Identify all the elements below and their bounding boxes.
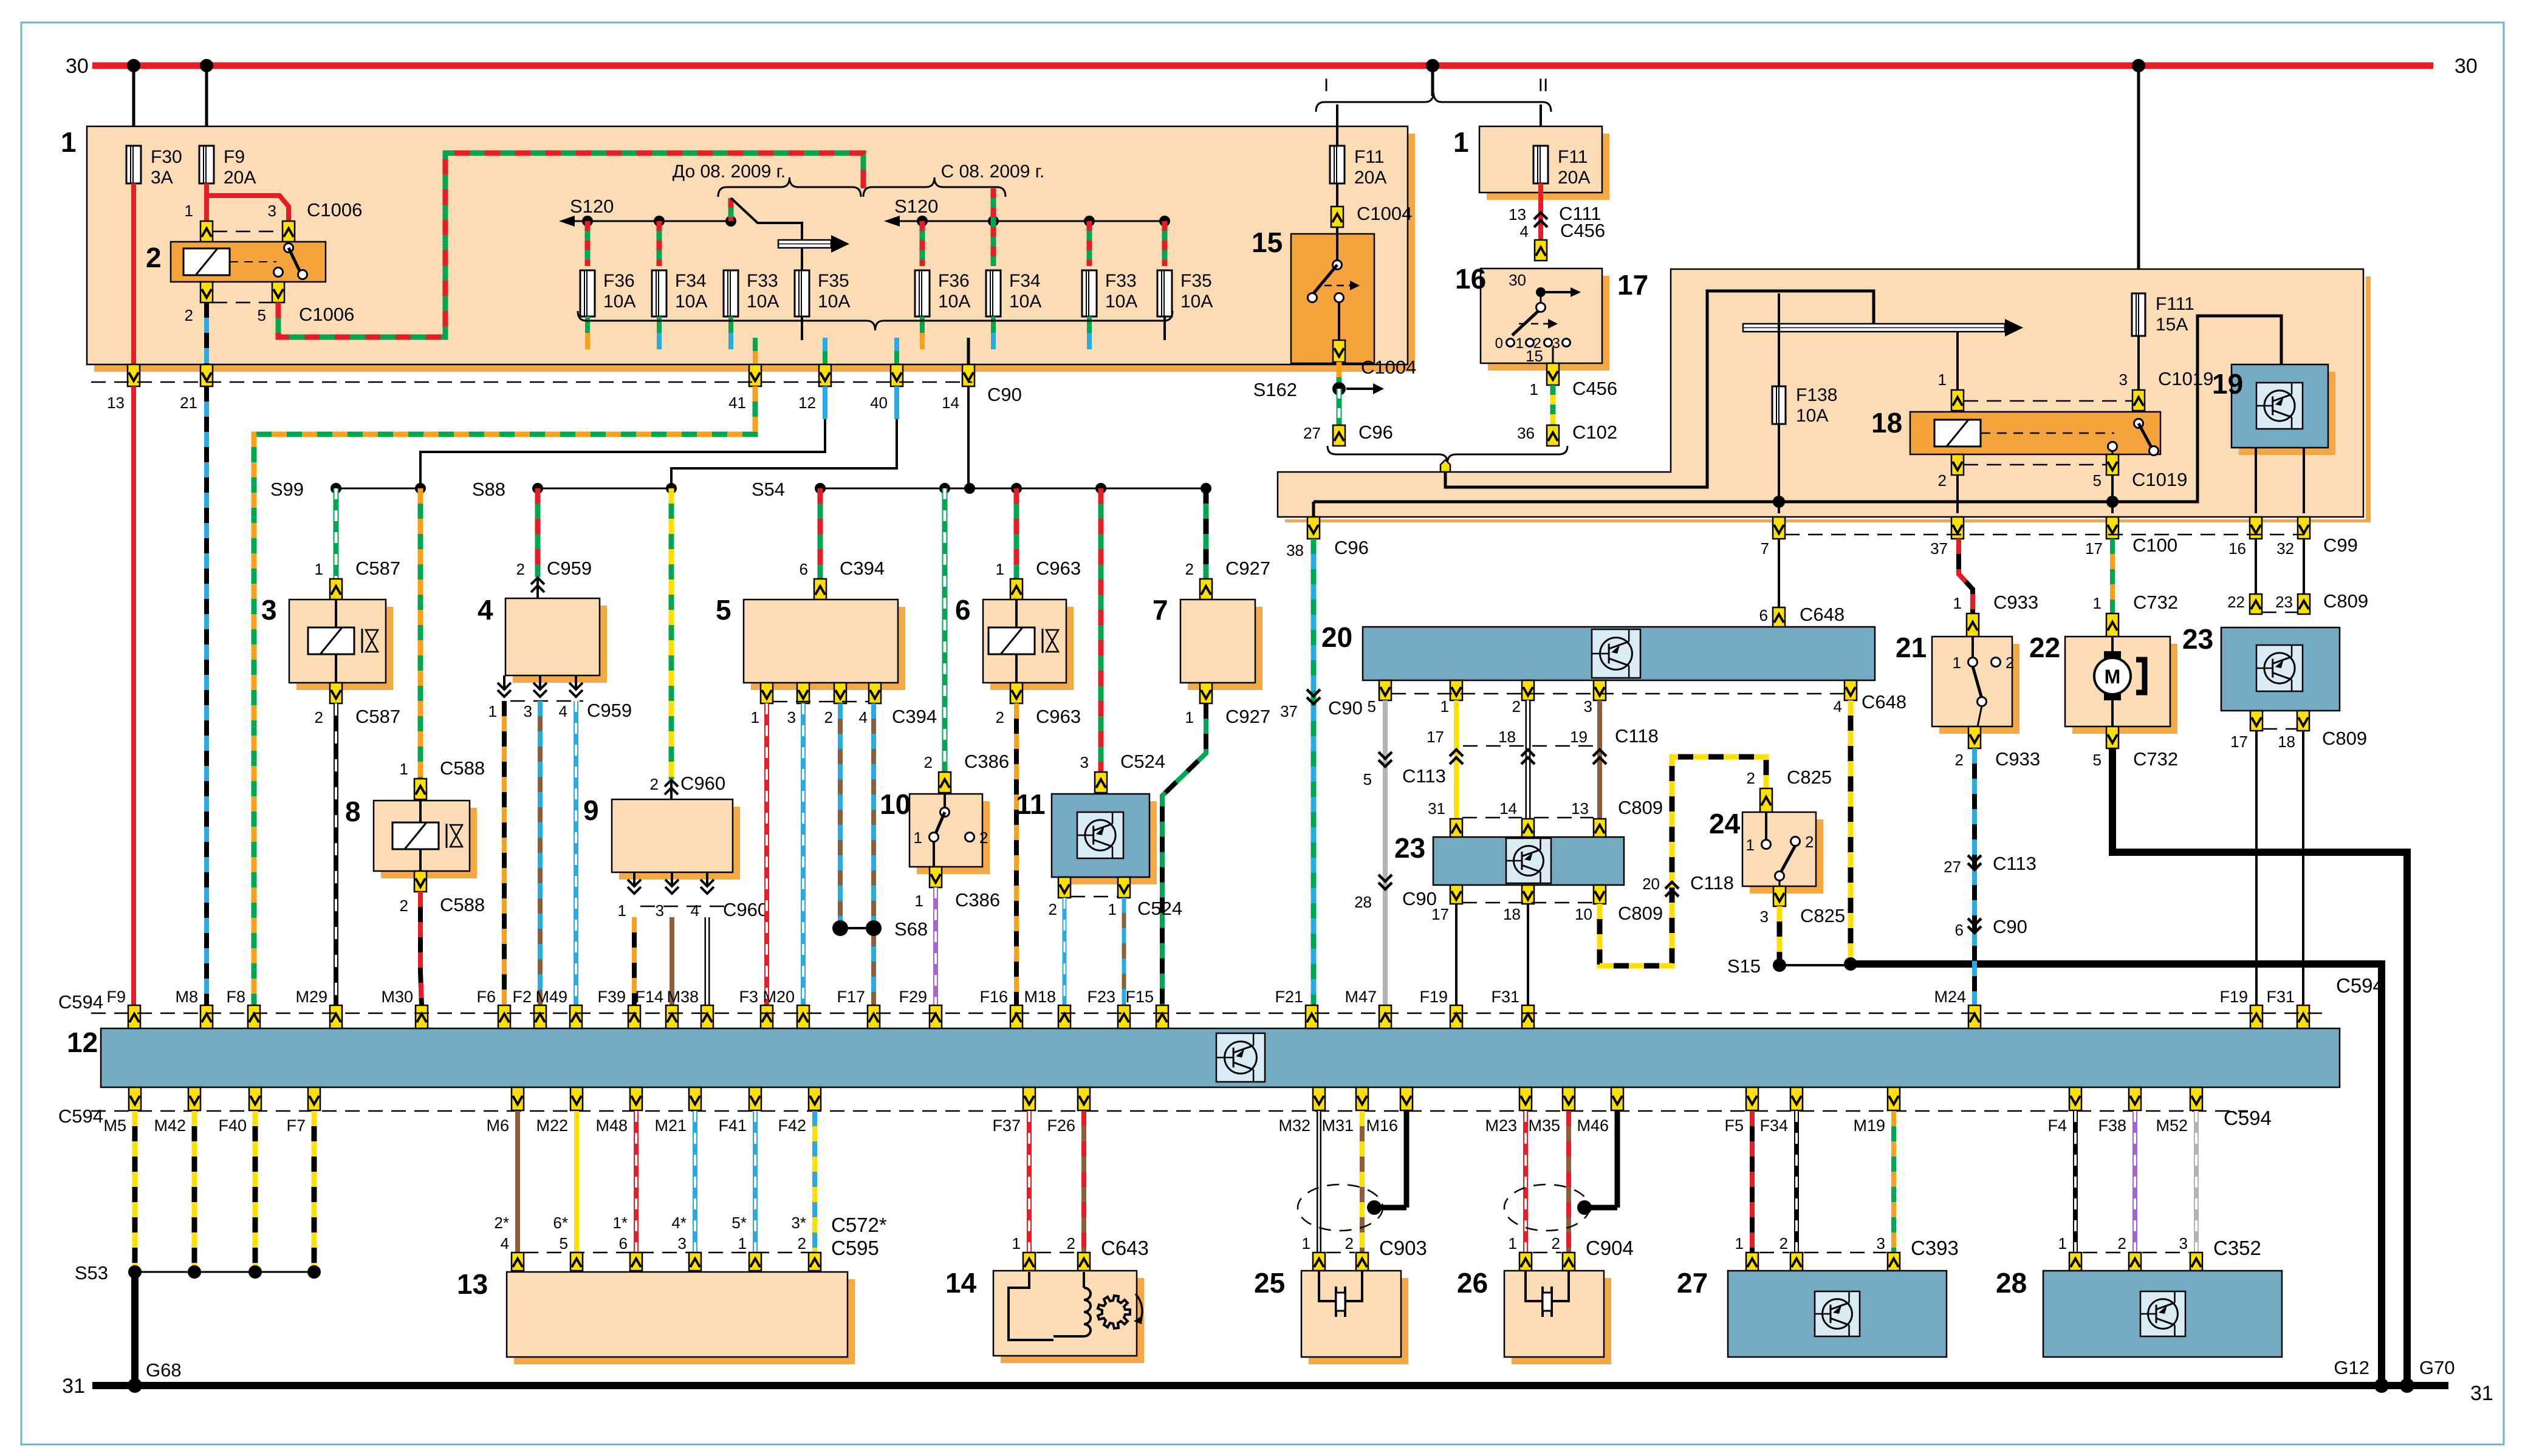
ground wire S53 to G68 xyxy=(131,1272,139,1386)
svg-text:1: 1 xyxy=(185,202,193,220)
wire C394-2 to S68 (brown/blue) xyxy=(838,703,843,928)
svg-text:37: 37 xyxy=(1930,539,1948,558)
block12 icon xyxy=(1216,1033,1265,1082)
svg-text:5: 5 xyxy=(1363,770,1372,788)
connector C96 pin38 xyxy=(1286,517,1369,559)
junction on bus 30 at F9 xyxy=(200,59,213,72)
wire M35 to block26 (brown/red) xyxy=(1566,1111,1571,1253)
svg-text:S68: S68 xyxy=(894,918,928,940)
wire pin40 stub (blue) xyxy=(894,386,899,419)
wire C648-4 to S15 (yellow/black) xyxy=(1848,700,1854,963)
wire C648-1 to C118-17 (yellow) xyxy=(1454,700,1459,819)
svg-text:F4: F4 xyxy=(2047,1116,2067,1135)
svg-text:F31: F31 xyxy=(1491,988,1519,1006)
svg-text:C809: C809 xyxy=(2323,590,2368,612)
svg-text:M8: M8 xyxy=(175,988,198,1006)
stub below F36 B xyxy=(920,316,925,349)
connector C809 pin18 right xyxy=(2297,711,2309,731)
svg-text:9: 9 xyxy=(583,795,599,826)
junction pin5/net-A xyxy=(2106,496,2119,508)
dashed line C903 xyxy=(1326,1252,1355,1254)
svg-text:31: 31 xyxy=(1428,799,1445,818)
svg-text:1: 1 xyxy=(1953,594,1962,612)
svg-text:C113: C113 xyxy=(1993,853,2036,874)
dashed line C118 xyxy=(1463,745,1593,747)
block 19 module xyxy=(2212,364,2335,455)
svg-text:C386: C386 xyxy=(964,751,1009,772)
wire harness to relay 18 pin 1 xyxy=(1956,332,1959,390)
svg-text:1: 1 xyxy=(751,708,759,726)
wire pentagon feed inside bar xyxy=(1445,291,1874,487)
block 25 connector row xyxy=(1313,1253,1368,1271)
block15 switch symbol xyxy=(1308,227,1360,340)
block 12 bottom pin labels xyxy=(103,1116,2188,1135)
junction S120 B F36 xyxy=(917,216,928,227)
relay K2 connector pin2 C1006 xyxy=(185,282,213,324)
wire C394-3 to M20 (blue/white) xyxy=(801,703,806,1005)
block 10 switch xyxy=(880,788,990,874)
svg-text:1: 1 xyxy=(1746,836,1755,854)
fuse F35 10A (group A) xyxy=(795,270,850,316)
switch lever group A xyxy=(731,198,802,240)
svg-text:F35: F35 xyxy=(818,271,849,291)
svg-text:1: 1 xyxy=(738,1234,747,1253)
wire right-23 pin17 to F19 (black) xyxy=(2255,731,2258,1005)
block 15 switch xyxy=(1252,227,1374,363)
wire M32 to block25 (double thin) xyxy=(1317,1111,1321,1253)
junction S120 A F34 xyxy=(654,216,665,227)
splice C118 pin20 xyxy=(1642,872,1734,897)
junction S99 xyxy=(331,483,341,494)
connector C587 pin2 xyxy=(315,683,401,727)
fuse F34 10A (group B) xyxy=(986,270,1041,316)
connector C394 pin1 xyxy=(761,683,773,703)
svg-text:1: 1 xyxy=(1185,708,1194,726)
connector pin21 C90 xyxy=(180,364,213,412)
connector C960 pin2 arrow xyxy=(650,773,726,799)
relay 2 coil xyxy=(183,248,276,275)
bottom gathering brace xyxy=(578,311,1173,330)
svg-text:M46: M46 xyxy=(1577,1116,1609,1135)
svg-text:F111: F111 xyxy=(2156,294,2194,314)
junction S88 xyxy=(532,483,543,494)
wire F5 to block27 (black/red) xyxy=(1750,1111,1755,1253)
stub below F34 A xyxy=(657,316,662,349)
svg-text:24: 24 xyxy=(1709,808,1741,839)
svg-text:C960: C960 xyxy=(723,899,768,920)
fuse F35 10A (group B) xyxy=(1157,270,1213,316)
wire pin41 to F8 (green/orange) xyxy=(254,386,755,1005)
svg-text:F11: F11 xyxy=(1558,147,1588,167)
wire C960-1 to F39 (black/orange) xyxy=(632,917,637,1005)
connector C963 pin1 xyxy=(996,558,1081,600)
svg-text:1: 1 xyxy=(315,560,323,578)
svg-text:36: 36 xyxy=(1517,424,1535,442)
dashed line C1019 bottom xyxy=(1964,464,2106,466)
block 6 solenoid valve xyxy=(955,594,1074,690)
svg-text:C524: C524 xyxy=(1120,751,1165,772)
wire pin12 to S99 net (black) xyxy=(420,419,825,488)
svg-text:17: 17 xyxy=(1431,905,1449,923)
svg-text:6: 6 xyxy=(1955,921,1964,939)
svg-text:2: 2 xyxy=(146,242,162,273)
svg-text:C588: C588 xyxy=(440,894,485,915)
block27 icon xyxy=(1815,1291,1860,1336)
wire C456-1 to C102-36 (yellow/green) xyxy=(1550,385,1556,425)
svg-text:F7: F7 xyxy=(286,1116,306,1135)
dashed connector line C90 below block 1 xyxy=(91,381,972,383)
connector C732 pin5 xyxy=(2093,726,2179,770)
svg-text:C572*: C572* xyxy=(831,1214,887,1236)
svg-text:F29: F29 xyxy=(899,988,927,1006)
connector C99 pin32 xyxy=(2276,517,2358,558)
wire supply drop to braces xyxy=(861,182,866,188)
svg-text:F40: F40 xyxy=(218,1116,247,1135)
bracket I/II xyxy=(1316,75,1551,112)
block23 right icon xyxy=(2256,645,2303,691)
svg-text:30: 30 xyxy=(66,55,89,78)
wire M31 to block25 (brown/yellow) xyxy=(1360,1111,1365,1253)
splice C118 17/18/19 xyxy=(1427,725,1659,764)
svg-text:20A: 20A xyxy=(1558,168,1590,188)
relay 2 xyxy=(146,242,326,282)
svg-text:C456: C456 xyxy=(1572,378,1617,399)
wire F33 A to supply stub xyxy=(728,198,734,221)
svg-text:G68: G68 xyxy=(146,1359,182,1381)
svg-text:C903: C903 xyxy=(1379,1237,1427,1259)
block9 pin arrows xyxy=(628,872,714,894)
power bus 30 (+) xyxy=(66,55,2478,78)
harness arrow in block 17 xyxy=(1743,319,2023,337)
svg-text:M18: M18 xyxy=(1024,988,1056,1006)
wire C96-38 to F21 (blue/green) xyxy=(1311,539,1317,1005)
stub above F34 A xyxy=(657,221,662,266)
svg-text:C1006: C1006 xyxy=(299,304,354,325)
svg-text:C113: C113 xyxy=(1402,765,1446,787)
block 13 connector row xyxy=(512,1253,821,1271)
svg-text:1: 1 xyxy=(1509,1234,1517,1253)
wire above F34 B xyxy=(991,188,996,266)
wire F9 to relay 2 pin 1 and 3 xyxy=(207,183,289,222)
svg-text:5: 5 xyxy=(258,306,266,324)
svg-text:C118: C118 xyxy=(1690,872,1734,894)
wire M19 to block27 (green/orange) xyxy=(1891,1111,1896,1253)
connector C927 pin1 xyxy=(1185,683,1271,727)
svg-text:S15: S15 xyxy=(1727,955,1761,977)
svg-text:M52: M52 xyxy=(2156,1116,2188,1135)
svg-text:1: 1 xyxy=(914,829,922,847)
svg-text:5*: 5* xyxy=(731,1214,747,1232)
connector C394 pin2 xyxy=(834,683,846,703)
junction S54-e xyxy=(1095,483,1106,494)
svg-text:M21: M21 xyxy=(654,1116,687,1135)
svg-text:F33: F33 xyxy=(747,271,778,291)
relay 18 xyxy=(1871,407,2160,454)
svg-text:22: 22 xyxy=(2227,593,2245,611)
connector pin14 C90 xyxy=(942,364,1022,412)
svg-text:C809: C809 xyxy=(1618,903,1663,924)
connector C100 pin17 xyxy=(2085,517,2177,558)
wire S88 to C959 pin2 (green/red) xyxy=(535,488,541,577)
wire M6 to block13 (brown) xyxy=(515,1111,520,1253)
wire C100-7 to C648-6 (black) xyxy=(1778,539,1780,607)
fuse F138 10A xyxy=(1772,293,1837,426)
svg-text:1: 1 xyxy=(1302,1234,1310,1253)
wire M5 to S53 (yellow/black) xyxy=(132,1111,138,1272)
stub below F33 A xyxy=(728,316,733,349)
svg-text:4: 4 xyxy=(859,708,868,726)
connector C809 pin22 xyxy=(2227,593,2262,614)
wire F138 to C100-7 xyxy=(1778,424,1780,513)
svg-text:M48: M48 xyxy=(595,1116,628,1135)
junction S120 B F34 xyxy=(988,216,999,227)
svg-text:С 08. 2009 г.: С 08. 2009 г. xyxy=(941,162,1045,182)
label Do 08.2009 xyxy=(673,162,786,182)
svg-text:5: 5 xyxy=(716,594,731,626)
svg-text:C595: C595 xyxy=(831,1237,879,1259)
connector C648 pin3 xyxy=(1594,680,1606,700)
block 14 motor unit xyxy=(945,1267,1144,1363)
svg-text:6: 6 xyxy=(619,1234,628,1253)
relay 18 coil xyxy=(1934,420,2114,446)
svg-text:18: 18 xyxy=(1498,728,1516,746)
svg-text:M32: M32 xyxy=(1278,1116,1310,1135)
block 8 solenoid valve xyxy=(345,796,477,878)
svg-text:C809: C809 xyxy=(2322,728,2367,749)
svg-text:C809: C809 xyxy=(1618,797,1663,818)
svg-text:3: 3 xyxy=(268,202,276,220)
brace C96/C102 xyxy=(1327,446,1567,463)
svg-text:2: 2 xyxy=(798,1234,806,1253)
svg-text:14: 14 xyxy=(945,1267,977,1299)
svg-text:F38: F38 xyxy=(2098,1116,2126,1135)
wire right-23 pin18 to F31 (black) xyxy=(2302,731,2304,1005)
block22 motor symbol xyxy=(2094,637,2145,726)
svg-text:M49: M49 xyxy=(535,988,567,1006)
svg-text:3A: 3A xyxy=(151,168,173,188)
block 27 connector row xyxy=(1746,1253,1900,1271)
svg-text:F138: F138 xyxy=(1796,385,1837,405)
svg-text:1: 1 xyxy=(1453,126,1469,158)
wire C960-3 to F14 (brown) xyxy=(670,917,674,1005)
stub above F35 B xyxy=(1162,221,1168,266)
connector C99 pin16 xyxy=(2228,517,2262,558)
svg-text:M16: M16 xyxy=(1366,1116,1398,1135)
dashed line C809 upper xyxy=(1462,817,1594,819)
svg-text:C1006: C1006 xyxy=(307,199,362,220)
wire F30 to pin 13 xyxy=(131,183,136,382)
relay K2 connector pin3 C1006 xyxy=(268,199,363,242)
block10 switch contacts xyxy=(914,794,988,867)
svg-text:2: 2 xyxy=(824,708,833,726)
svg-text:M22: M22 xyxy=(536,1116,568,1135)
dashed line C595 xyxy=(524,1252,808,1254)
svg-text:1: 1 xyxy=(1012,1234,1021,1253)
connector C394 pin6 xyxy=(800,558,885,600)
svg-text:C643: C643 xyxy=(1101,1237,1149,1259)
svg-text:F19: F19 xyxy=(1419,988,1448,1006)
svg-text:23: 23 xyxy=(2275,593,2293,611)
fuse F34 10A (group A) xyxy=(652,270,707,316)
connector C927 pin2 xyxy=(1185,558,1271,600)
connector C809 pin13 xyxy=(1571,797,1663,838)
connector C809 pin10 lower xyxy=(1594,885,1606,904)
svg-text:1: 1 xyxy=(400,760,408,778)
svg-text:M: M xyxy=(2105,666,2121,688)
svg-text:F14: F14 xyxy=(635,988,663,1006)
wire F11-I to C1004 xyxy=(1336,183,1338,207)
svg-text:10A: 10A xyxy=(675,292,707,312)
block6 valve symbol xyxy=(988,600,1058,683)
svg-text:2: 2 xyxy=(1955,751,1964,769)
wire pin12 stub (blue) xyxy=(823,386,827,419)
wire M52 to block28 (gray/white) xyxy=(2194,1111,2199,1253)
junction S54-c xyxy=(964,483,975,494)
svg-text:F3: F3 xyxy=(739,988,758,1006)
svg-text:M20: M20 xyxy=(762,988,795,1006)
svg-text:F33: F33 xyxy=(1105,271,1137,291)
dashed line C1019 top xyxy=(1964,400,2132,402)
connector C809 pin14 xyxy=(1499,799,1534,838)
svg-text:2: 2 xyxy=(1185,560,1194,578)
wire block3 to M29 (black/white) xyxy=(334,703,338,1005)
svg-text:S99: S99 xyxy=(270,479,304,500)
node S53 line xyxy=(75,1262,314,1283)
wire C959-4 to M49 (blue/white) xyxy=(574,701,578,1005)
connector pin12 C90 xyxy=(798,364,831,412)
node S120 (group B) xyxy=(884,196,1165,227)
dashed line C352 xyxy=(2083,1252,2189,1254)
svg-text:4: 4 xyxy=(501,1234,509,1253)
svg-text:C90: C90 xyxy=(1328,697,1363,719)
svg-text:5: 5 xyxy=(560,1234,568,1253)
svg-text:7: 7 xyxy=(1153,594,1168,626)
svg-text:2: 2 xyxy=(2006,654,2014,672)
svg-text:3: 3 xyxy=(1584,697,1592,716)
label C594 bottom-right xyxy=(2224,1107,2272,1129)
connector C386 pin1 xyxy=(915,867,1001,911)
svg-text:13: 13 xyxy=(457,1268,488,1300)
svg-text:C100: C100 xyxy=(2132,535,2177,556)
svg-text:2: 2 xyxy=(2118,1234,2126,1253)
wire C100-17 to C732-1 (orange/green) xyxy=(2110,539,2115,614)
svg-text:13: 13 xyxy=(107,394,125,412)
block 13 unit xyxy=(457,1268,855,1364)
svg-text:2: 2 xyxy=(516,560,525,578)
splice C90 pin28 xyxy=(1354,875,1437,911)
block27 pin labels xyxy=(1735,1234,1959,1259)
svg-text:21: 21 xyxy=(1896,632,1927,663)
svg-text:41: 41 xyxy=(728,394,746,412)
dashed connector line C100/C99 xyxy=(1785,534,2304,536)
connector C524 pin2 xyxy=(1058,877,1070,898)
svg-text:F36: F36 xyxy=(603,271,635,291)
wire relay2 pin2 to pin 21 (blue/black) xyxy=(204,302,209,382)
block24 contacts xyxy=(1746,812,1814,886)
svg-text:C394: C394 xyxy=(840,558,885,579)
svg-text:2: 2 xyxy=(1552,1234,1560,1253)
block16 internals xyxy=(1495,271,1581,365)
wire block8 to M30 (black/red) xyxy=(420,892,422,1005)
svg-text:C927: C927 xyxy=(1225,706,1270,727)
svg-text:11: 11 xyxy=(1016,788,1046,820)
block 27 module xyxy=(1677,1267,1947,1357)
svg-text:1: 1 xyxy=(1530,380,1538,398)
svg-text:S53: S53 xyxy=(75,1262,108,1283)
svg-text:2: 2 xyxy=(1938,471,1947,490)
block 9 control unit xyxy=(583,795,740,880)
block25 pin labels xyxy=(1302,1234,1427,1259)
svg-text:37: 37 xyxy=(1280,702,1298,720)
svg-text:26: 26 xyxy=(1457,1267,1488,1299)
junction F138/net-A xyxy=(1773,496,1785,508)
block25 piezo symbol xyxy=(1319,1271,1362,1317)
node S88 line xyxy=(472,479,671,500)
junction S53 a xyxy=(128,1265,142,1279)
block 1 fuse/relay box xyxy=(61,126,1415,372)
block 16 ignition switch xyxy=(1455,263,1609,371)
svg-text:20: 20 xyxy=(1642,875,1660,893)
wire S54 to C386 pin2 (green/white) xyxy=(942,488,948,772)
node S15 xyxy=(1727,955,1851,977)
block19 icon xyxy=(2256,383,2303,429)
svg-text:C1019: C1019 xyxy=(2132,469,2187,490)
block 23 module (upper) xyxy=(1394,832,1624,885)
wire C648-2 to C118-18 (double thin) xyxy=(1526,700,1531,819)
wire relay18 pin2 to C100-37 xyxy=(1956,475,1959,513)
wire F11-II to C111 (red) xyxy=(1538,183,1543,240)
svg-text:C732: C732 xyxy=(2133,748,2178,770)
block26 pin labels xyxy=(1509,1234,1634,1259)
wire relay2 pin5 supply (green/red dashed) xyxy=(278,153,863,337)
svg-text:C393: C393 xyxy=(1911,1237,1959,1259)
stub to pin 40 xyxy=(894,338,899,364)
wire F26 to block14 (brown/red) xyxy=(1081,1111,1086,1253)
svg-text:1: 1 xyxy=(1953,654,1961,672)
block 24 switch xyxy=(1709,808,1823,894)
junction S54-b xyxy=(939,483,950,494)
svg-text:38: 38 xyxy=(1286,541,1304,559)
fuse F30 3A xyxy=(126,146,182,188)
svg-text:14: 14 xyxy=(942,394,959,412)
stub below F35 B xyxy=(1163,316,1166,340)
ground bus 31 xyxy=(62,1375,2493,1405)
svg-text:20: 20 xyxy=(1321,621,1352,653)
splice C113 pin27 xyxy=(1944,853,2036,876)
wire harness to F35 A xyxy=(801,248,803,270)
svg-text:17: 17 xyxy=(2085,539,2103,558)
block 12 top connector row C594 xyxy=(128,1005,2309,1028)
svg-text:C118: C118 xyxy=(1615,725,1659,747)
svg-text:1: 1 xyxy=(996,560,1004,578)
connector C809 pin17 lower xyxy=(1450,885,1462,904)
junction on bus 30 feeding F111 xyxy=(2132,59,2145,72)
svg-text:1: 1 xyxy=(1516,335,1524,352)
svg-text:2: 2 xyxy=(1049,900,1057,918)
svg-text:2: 2 xyxy=(650,775,659,793)
block13 pin star labels xyxy=(494,1214,886,1236)
svg-text:27: 27 xyxy=(1303,424,1321,442)
svg-text:3*: 3* xyxy=(791,1214,806,1232)
fuse F33 10A (group B) xyxy=(1082,270,1137,316)
connector pin41 C90 xyxy=(728,364,761,412)
connector C1004 bottom xyxy=(1333,340,1416,378)
svg-text:C904: C904 xyxy=(1586,1237,1634,1259)
svg-text:C963: C963 xyxy=(1036,558,1081,579)
svg-text:C648: C648 xyxy=(1862,691,1906,713)
wire F4 to block28 (black/white) xyxy=(2073,1111,2078,1253)
svg-text:2*: 2* xyxy=(494,1214,509,1232)
